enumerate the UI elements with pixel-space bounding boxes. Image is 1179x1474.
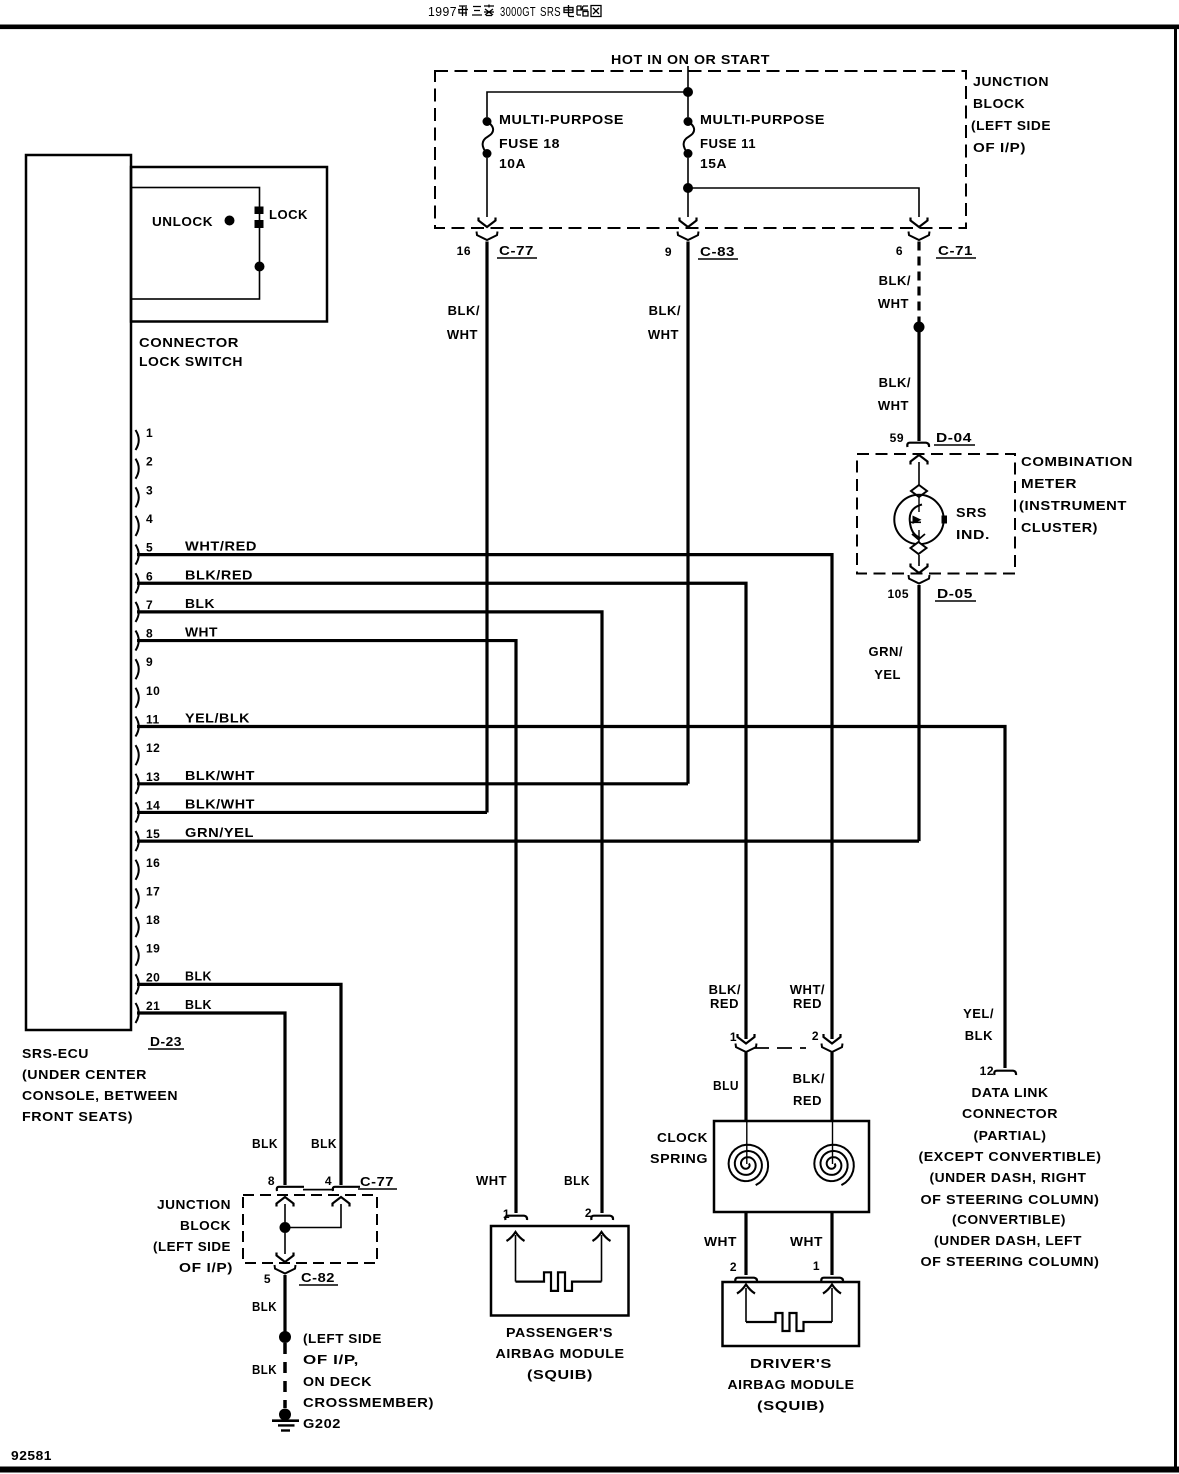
passenger airbag module box	[491, 1226, 629, 1316]
svg-text:D-04: D-04	[936, 430, 972, 445]
svg-text:21: 21	[146, 999, 160, 1013]
wire pin 20 BLK to junction 4	[137, 984, 341, 1185]
svg-text:RED: RED	[793, 1093, 822, 1108]
arrow down out of meter	[911, 564, 928, 574]
fuse F18 MULTI-PURPOSE FUSE 18 10A	[483, 117, 492, 126]
svg-text:WHT: WHT	[704, 1234, 737, 1249]
svg-text:(SQUIB): (SQUIB)	[527, 1367, 593, 1382]
svg-text:YEL: YEL	[874, 667, 901, 682]
svg-text:WHT: WHT	[185, 625, 218, 640]
svg-text:WHT: WHT	[878, 296, 909, 311]
svg-text:DATA LINK: DATA LINK	[972, 1085, 1049, 1100]
wire pin 7 BLK to passenger airbag 2	[137, 612, 602, 1213]
svg-text:4: 4	[146, 512, 153, 526]
connector D-04 pin 59 tbar	[907, 443, 929, 447]
diamond top of SRS IND lamp	[911, 485, 927, 497]
connector junction pin 4 tbar	[333, 1187, 360, 1191]
svg-text:(SQUIB): (SQUIB)	[757, 1398, 825, 1413]
node splice on C-71 wire	[914, 322, 925, 333]
svg-text:16: 16	[457, 244, 471, 258]
svg-text:JUNCTION: JUNCTION	[157, 1197, 231, 1212]
svg-text:(UNDER DASH, RIGHT: (UNDER DASH, RIGHT	[930, 1170, 1087, 1185]
junction block (bottom) dashed box	[243, 1195, 377, 1263]
connector passenger pin 1 tbar	[505, 1216, 527, 1220]
title CJK glyph ling	[484, 5, 494, 16]
wire D-05 down (GRN/YEL)	[917, 585, 920, 841]
svg-text:BLK/: BLK/	[793, 1071, 825, 1086]
pin 16 of SRS-ECU	[136, 860, 139, 880]
svg-text:WHT/RED: WHT/RED	[185, 539, 257, 554]
title CJK glyph san	[472, 7, 482, 16]
svg-text:2: 2	[730, 1260, 737, 1274]
connector clock spring pin 1 male end	[738, 1034, 755, 1044]
svg-text:C-82: C-82	[301, 1270, 335, 1285]
svg-text:BLK: BLK	[965, 1028, 993, 1043]
squib arrow left passenger	[507, 1232, 525, 1241]
wire C-82 down BLK	[283, 1275, 286, 1337]
svg-text:(EXCEPT CONVERTIBLE): (EXCEPT CONVERTIBLE)	[919, 1149, 1102, 1164]
svg-text:8: 8	[146, 627, 153, 641]
svg-text:COMBINATION: COMBINATION	[1021, 454, 1133, 469]
svg-text:CONNECTOR: CONNECTOR	[962, 1106, 1058, 1121]
svg-text:C-83: C-83	[700, 244, 735, 259]
svg-text:BLK: BLK	[185, 997, 212, 1012]
svg-text:10A: 10A	[499, 156, 526, 171]
svg-text:(UNDER DASH, LEFT: (UNDER DASH, LEFT	[934, 1233, 1082, 1248]
svg-text:YEL/: YEL/	[963, 1006, 994, 1021]
svg-text:WHT: WHT	[878, 398, 909, 413]
connector C-77 pin 16 cup	[477, 232, 498, 241]
connector C-82 pin 5 cup	[275, 1265, 296, 1274]
arrow into C-83	[680, 218, 697, 228]
wire C-71 6 down dashed (BLK/WHT)	[917, 242, 920, 323]
svg-text:14: 14	[146, 798, 160, 812]
svg-text:BLOCK: BLOCK	[973, 96, 1025, 111]
svg-text:D-05: D-05	[937, 586, 973, 601]
wire connector strip between 8 and 4	[303, 1189, 334, 1191]
svg-text:C-77: C-77	[360, 1174, 394, 1189]
wire clock spring to driver 2 WHT	[744, 1212, 747, 1275]
wire pin 11 YEL/BLK to data link	[137, 727, 1005, 1069]
svg-text:BLK: BLK	[311, 1136, 337, 1151]
pin 8 of SRS-ECU	[136, 631, 139, 651]
svg-text:6: 6	[146, 569, 153, 583]
svg-text:16: 16	[146, 856, 160, 870]
svg-text:BLK/: BLK/	[649, 303, 681, 318]
svg-text:OF STEERING COLUMN): OF STEERING COLUMN)	[921, 1192, 1100, 1207]
svg-text:10: 10	[146, 684, 160, 698]
svg-text:LOCK SWITCH: LOCK SWITCH	[139, 354, 243, 369]
connector clock spring pin 2 cup	[822, 1044, 843, 1053]
svg-text:MULTI-PURPOSE: MULTI-PURPOSE	[700, 112, 825, 127]
wire pin 21 BLK to junction 8	[137, 1013, 285, 1185]
svg-text:3000GT: 3000GT	[500, 4, 536, 19]
svg-text:METER: METER	[1021, 476, 1077, 491]
svg-text:BLK/: BLK/	[448, 303, 480, 318]
svg-text:FRONT SEATS): FRONT SEATS)	[22, 1109, 133, 1124]
svg-text:CONSOLE, BETWEEN: CONSOLE, BETWEEN	[22, 1088, 178, 1103]
svg-text:SRS: SRS	[540, 4, 561, 19]
title CJK glyph nian	[458, 6, 468, 16]
svg-text:BLK/WHT: BLK/WHT	[185, 768, 255, 783]
svg-text:BLK: BLK	[252, 1299, 277, 1314]
svg-text:BLK/WHT: BLK/WHT	[185, 796, 255, 811]
connector clock spring pin 1 cup	[736, 1044, 757, 1053]
arrow up into meter from D-04	[911, 455, 928, 465]
node ground splice	[279, 1331, 291, 1343]
svg-text:LOCK: LOCK	[269, 207, 308, 222]
wire dashed between clock connectors	[754, 1047, 806, 1049]
connector lock switch outer box	[131, 167, 327, 322]
SRS-ECU box	[26, 155, 131, 1030]
svg-text:(CONVERTIBLE): (CONVERTIBLE)	[952, 1212, 1066, 1227]
wire dashed BLK to ground	[283, 1343, 287, 1408]
svg-text:YEL/BLK: YEL/BLK	[185, 711, 250, 726]
connector C-83 pin 9 cup	[678, 232, 699, 241]
wire branch to fuse 18	[487, 92, 688, 117]
svg-text:BLK: BLK	[185, 596, 215, 611]
pin 15 of SRS-ECU	[136, 831, 139, 851]
node junction block splice	[280, 1222, 291, 1233]
pin 9 of SRS-ECU	[136, 659, 139, 679]
switch contact upper square	[255, 207, 264, 215]
svg-text:MULTI-PURPOSE: MULTI-PURPOSE	[499, 112, 624, 127]
connector passenger pin 2 tbar	[591, 1216, 613, 1220]
svg-text:1: 1	[813, 1259, 820, 1273]
svg-text:OF STEERING COLUMN): OF STEERING COLUMN)	[921, 1254, 1100, 1269]
svg-text:(PARTIAL): (PARTIAL)	[974, 1128, 1047, 1143]
svg-text:BLK: BLK	[185, 968, 212, 983]
pin 2 of SRS-ECU	[136, 459, 139, 479]
svg-text:(LEFT SIDE: (LEFT SIDE	[153, 1239, 231, 1254]
diamond bottom of SRS IND lamp	[911, 542, 927, 554]
title CJK glyph tu	[591, 6, 601, 17]
svg-text:BLK/RED: BLK/RED	[185, 567, 253, 582]
svg-text:9: 9	[146, 655, 153, 669]
svg-text:WHT: WHT	[476, 1173, 507, 1188]
wire pin 5 WHT/RED to clock spring 2	[137, 555, 832, 1039]
squib arrow right driver	[823, 1285, 841, 1294]
switch contact lower square	[255, 220, 264, 228]
svg-text:(UNDER CENTER: (UNDER CENTER	[22, 1067, 147, 1082]
svg-text:AIRBAG MODULE: AIRBAG MODULE	[496, 1346, 625, 1361]
connector lock switch inner box	[131, 188, 260, 300]
svg-text:WHT: WHT	[648, 327, 679, 342]
pin 5 of SRS-ECU	[136, 545, 139, 565]
svg-text:(LEFT SIDE: (LEFT SIDE	[971, 118, 1051, 133]
svg-text:D-23: D-23	[150, 1034, 182, 1049]
arrow into C-77	[479, 218, 496, 228]
pin 21 of SRS-ECU	[136, 1003, 139, 1023]
svg-text:BLK/: BLK/	[879, 375, 911, 390]
svg-text:7: 7	[146, 598, 153, 612]
wire fuse 11 down	[687, 158, 689, 217]
wire splice to D-04 (BLK/WHT)	[917, 332, 920, 441]
svg-text:BLK/: BLK/	[879, 273, 911, 288]
pin 1 of SRS-ECU	[136, 430, 139, 450]
wire clock spring to driver 1 WHT	[830, 1212, 833, 1275]
svg-text:13: 13	[146, 770, 160, 784]
svg-text:12: 12	[980, 1064, 994, 1078]
arrow into C-71	[911, 218, 928, 228]
pin 13 of SRS-ECU	[136, 774, 139, 794]
wire fuse 18 to connector C-77	[486, 158, 488, 217]
svg-text:BLK: BLK	[252, 1362, 277, 1377]
svg-text:IND.: IND.	[956, 527, 990, 542]
clock spring right spiral coil	[814, 1145, 854, 1185]
connector junction pin 8 tbar	[277, 1187, 304, 1191]
pin 4 of SRS-ECU	[136, 516, 139, 536]
svg-text:GRN/YEL: GRN/YEL	[185, 825, 254, 840]
svg-text:20: 20	[146, 970, 160, 984]
svg-text:4: 4	[325, 1174, 332, 1188]
clock spring box	[714, 1121, 869, 1212]
page top border	[0, 25, 1179, 30]
svg-text:AIRBAG MODULE: AIRBAG MODULE	[728, 1377, 855, 1392]
page right border	[1174, 27, 1177, 1469]
pin 11 of SRS-ECU	[136, 717, 139, 737]
connector clock spring pin 2 male end	[824, 1034, 841, 1044]
svg-text:(LEFT SIDE: (LEFT SIDE	[303, 1331, 382, 1346]
arrow down to C-82	[277, 1253, 294, 1263]
wire pin 8 WHT to passenger airbag 1	[137, 641, 516, 1213]
svg-text:C-71: C-71	[938, 243, 973, 258]
switch contact dot lower	[255, 262, 265, 272]
svg-text:OF I/P,: OF I/P,	[303, 1352, 359, 1367]
svg-text:WHT/: WHT/	[790, 982, 825, 997]
svg-text:OF I/P): OF I/P)	[179, 1260, 233, 1275]
combination meter dashed box	[857, 454, 1015, 574]
svg-text:WHT: WHT	[790, 1234, 823, 1249]
junction block (top) dashed box	[435, 71, 966, 228]
svg-text:5: 5	[146, 541, 153, 555]
svg-text:11: 11	[146, 713, 160, 727]
svg-text:59: 59	[890, 431, 904, 445]
svg-text:19: 19	[146, 942, 160, 956]
svg-text:ON DECK: ON DECK	[303, 1374, 372, 1389]
wire splice down to C-82	[284, 1233, 286, 1254]
pin 19 of SRS-ECU	[136, 946, 139, 966]
svg-text:SRS: SRS	[956, 505, 987, 520]
svg-text:5: 5	[264, 1272, 271, 1286]
pin 12 of SRS-ECU	[136, 745, 139, 765]
wire clock 2 to clock spring box BLK/RED	[830, 1053, 833, 1122]
wire hot feed into box	[687, 66, 689, 117]
svg-text:BLK: BLK	[252, 1136, 278, 1151]
driver airbag module box	[723, 1282, 860, 1346]
squib arrow right passenger	[593, 1232, 611, 1241]
title CJK glyph dian	[564, 5, 574, 17]
pin 14 of SRS-ECU	[136, 802, 139, 822]
switch unlock contact dot	[225, 216, 235, 226]
svg-text:12: 12	[146, 741, 160, 755]
svg-text:CROSSMEMBER): CROSSMEMBER)	[303, 1395, 434, 1410]
svg-text:HOT IN ON OR START: HOT IN ON OR START	[611, 52, 770, 67]
svg-text:1: 1	[730, 1030, 737, 1044]
connector D-05 pin 105 cup	[909, 575, 930, 584]
svg-text:BLK/: BLK/	[709, 982, 741, 997]
svg-text:BLU: BLU	[713, 1078, 739, 1093]
svg-text:CLUSTER): CLUSTER)	[1021, 520, 1098, 535]
pin 6 of SRS-ECU	[136, 573, 139, 593]
svg-text:(INSTRUMENT: (INSTRUMENT	[1019, 498, 1127, 513]
svg-text:1: 1	[146, 426, 153, 440]
pin 17 of SRS-ECU	[136, 888, 139, 908]
svg-text:UNLOCK: UNLOCK	[152, 214, 213, 229]
wire pin 6 BLK/RED to clock spring 1	[137, 583, 746, 1039]
wire pin 15 GRN/YEL to D-05	[137, 839, 919, 842]
svg-text:SRS-ECU: SRS-ECU	[22, 1046, 89, 1061]
svg-text:DRIVER'S: DRIVER'S	[750, 1356, 832, 1371]
svg-text:92581: 92581	[11, 1448, 52, 1463]
wire branch to connector C-71	[688, 188, 919, 217]
ground G202 symbol	[279, 1409, 291, 1421]
pin 7 of SRS-ECU	[136, 602, 139, 622]
svg-text:RED: RED	[710, 996, 739, 1011]
clock spring left spiral coil	[729, 1145, 769, 1185]
svg-text:105: 105	[887, 587, 909, 601]
svg-text:SPRING: SPRING	[650, 1151, 708, 1166]
arrow up to junction 4	[333, 1197, 350, 1207]
arrow up to junction 8	[277, 1197, 294, 1207]
svg-text:15A: 15A	[700, 156, 727, 171]
svg-text:9: 9	[665, 245, 672, 259]
svg-text:2: 2	[146, 455, 153, 469]
wire inside meter lower	[918, 555, 920, 566]
wire junction 8 to splice	[284, 1204, 286, 1222]
svg-text:PASSENGER'S: PASSENGER'S	[506, 1325, 613, 1340]
svg-text:OF I/P): OF I/P)	[973, 140, 1026, 155]
wire pin 14 BLK/WHT to C-77	[137, 811, 487, 814]
wire through left spiral	[746, 1121, 748, 1164]
svg-text:FUSE 11: FUSE 11	[700, 136, 756, 151]
title CJK glyph lu	[577, 6, 588, 16]
svg-text:3: 3	[146, 483, 153, 497]
wire splice to junction 4	[290, 1204, 341, 1228]
wire inside meter upper	[918, 462, 920, 486]
wire C-83 9 down (BLK/WHT)	[686, 242, 689, 784]
svg-text:FUSE 18: FUSE 18	[499, 136, 560, 151]
wire clock 1 to clock spring box BLU	[744, 1053, 747, 1122]
wire through right spiral	[832, 1121, 834, 1164]
svg-text:RED: RED	[793, 996, 822, 1011]
pin 20 of SRS-ECU	[136, 974, 139, 994]
wire C-77 16 down (BLK/WHT)	[485, 242, 488, 813]
svg-text:2: 2	[812, 1029, 819, 1043]
svg-text:BLOCK: BLOCK	[180, 1218, 231, 1233]
pin 18 of SRS-ECU	[136, 917, 139, 937]
connector driver pin 2 tbar	[735, 1278, 757, 1282]
node hot feed junction	[683, 87, 693, 97]
svg-text:15: 15	[146, 827, 160, 841]
wire pin 13 BLK/WHT to C-83	[137, 782, 688, 785]
svg-text:JUNCTION: JUNCTION	[973, 74, 1049, 89]
svg-text:CONNECTOR: CONNECTOR	[139, 335, 239, 350]
svg-text:CLOCK: CLOCK	[657, 1130, 708, 1145]
connector data link pin 12 tbar	[994, 1071, 1016, 1075]
svg-text:GRN/: GRN/	[869, 644, 904, 659]
svg-text:WHT: WHT	[447, 327, 478, 342]
squib arrow left driver	[737, 1285, 755, 1294]
fuse F11 MULTI-PURPOSE FUSE 11 15A	[684, 117, 693, 126]
connector C-71 pin 6 cup	[909, 232, 930, 241]
pin 3 of SRS-ECU	[136, 487, 139, 507]
lamp SRS IND bulb	[894, 495, 943, 544]
node branch to C-71	[683, 183, 693, 193]
svg-text:C-77: C-77	[499, 243, 534, 258]
squib resistor driver	[746, 1313, 832, 1331]
svg-text:1997: 1997	[428, 4, 457, 19]
svg-text:8: 8	[268, 1174, 275, 1188]
squib resistor passenger	[516, 1272, 602, 1291]
pin 10 of SRS-ECU	[136, 688, 139, 708]
svg-text:G202: G202	[303, 1416, 341, 1431]
svg-text:6: 6	[896, 244, 903, 258]
svg-text:18: 18	[146, 913, 160, 927]
connector driver pin 1 tbar	[821, 1278, 843, 1282]
svg-text:17: 17	[146, 884, 160, 898]
svg-text:BLK: BLK	[564, 1173, 590, 1188]
page bottom border	[0, 1467, 1179, 1473]
